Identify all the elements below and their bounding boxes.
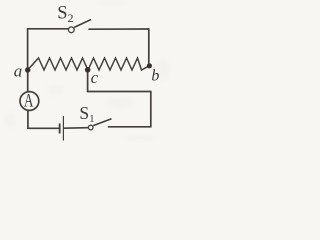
- svg-text:A: A: [24, 91, 34, 112]
- svg-text:a: a: [14, 61, 22, 80]
- battery B1: [59, 116, 64, 141]
- svg-text:c: c: [91, 68, 99, 87]
- ammeter A1: [20, 91, 39, 112]
- node a: [25, 67, 30, 72]
- paper mottling: [4, 0, 170, 141]
- node c (wiper): [85, 67, 91, 73]
- svg-text:b: b: [151, 67, 159, 84]
- wire top-right horizontal: [89, 28, 149, 30]
- wire c-branch horizontal: [88, 91, 151, 93]
- wire node a to ammeter: [27, 71, 29, 91]
- wire bottom-left horizontal to battery: [28, 127, 59, 129]
- node b: [147, 63, 152, 68]
- wire right-bottom vertical: [150, 92, 152, 127]
- wire left vertical (top corner to node a): [27, 29, 29, 69]
- wire c-branch vertical from node c: [87, 70, 89, 92]
- wire battery to switch S1: [64, 127, 88, 130]
- wire right-top vertical: [148, 29, 150, 64]
- rheostat (resistor a-b): [28, 58, 150, 70]
- switch S1: [88, 119, 111, 130]
- wire ammeter to bottom-left corner: [27, 111, 29, 128]
- wire bottom-right horizontal: [109, 126, 151, 128]
- wire top-left horizontal: [28, 28, 68, 30]
- switch S2: [68, 20, 91, 33]
